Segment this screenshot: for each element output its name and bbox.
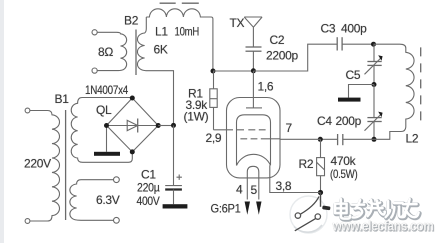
svg-text:7: 7 bbox=[286, 121, 293, 135]
resistor R2 bbox=[320, 139, 322, 157]
svg-text:1N4007x4: 1N4007x4 bbox=[85, 83, 129, 97]
scan edge bbox=[0, 0, 4, 243]
svg-text:(1W): (1W) bbox=[184, 110, 209, 124]
capacitor C2 bbox=[246, 46, 262, 48]
svg-text:220µ: 220µ bbox=[137, 181, 160, 195]
tube anode bar bbox=[246, 107, 262, 109]
node F (key) bbox=[318, 190, 323, 195]
node E (pin7/R2) bbox=[318, 137, 323, 142]
key contact bar bbox=[322, 206, 330, 211]
svg-text:400p: 400p bbox=[341, 22, 367, 36]
junction dots of bridge bbox=[130, 96, 135, 101]
svg-text:(0.5W): (0.5W) bbox=[330, 167, 358, 181]
svg-text:L1: L1 bbox=[155, 25, 168, 39]
terminal (B2 top) bbox=[92, 30, 97, 35]
transformer B1 core bbox=[65, 110, 67, 220]
variable capacitor C5 lower section bbox=[373, 85, 375, 118]
ground (C5) bbox=[338, 98, 361, 102]
svg-text:3,8: 3,8 bbox=[276, 179, 292, 193]
watermark logo circle bbox=[290, 196, 327, 233]
svg-text:5: 5 bbox=[251, 183, 258, 197]
svg-text:QL: QL bbox=[96, 103, 112, 117]
svg-text:2,9: 2,9 bbox=[206, 131, 222, 145]
svg-text:4: 4 bbox=[236, 183, 243, 197]
tube anode arch bbox=[237, 115, 271, 166]
svg-text:2200p: 2200p bbox=[266, 49, 298, 63]
transformer B2 primary winding bbox=[97, 32, 127, 70]
tube grid 1 dashes (pin 2,9) bbox=[237, 129, 266, 131]
wire B+ node down to C1 bbox=[173, 125, 175, 185]
inductor L2 bbox=[374, 44, 415, 139]
svg-text:200p: 200p bbox=[336, 114, 362, 128]
tube cathode lead 3,8 bbox=[270, 165, 321, 192]
capacitor C3 bbox=[336, 37, 338, 50]
svg-text:L2: L2 bbox=[406, 132, 419, 146]
tube heater bbox=[247, 166, 258, 199]
wire node E to tube pin 7 bbox=[280, 138, 320, 140]
transformer B1 primary winding bbox=[30, 111, 60, 222]
svg-text:B2: B2 bbox=[124, 14, 139, 28]
antenna TX bbox=[244, 17, 262, 47]
inductor L1 10mH bbox=[146, 9, 213, 71]
svg-text:1,6: 1,6 bbox=[258, 80, 274, 94]
terminal (B1 primary top) bbox=[25, 108, 30, 113]
node D (tank bottom) bbox=[372, 137, 377, 142]
terminal (B1 primary bottom) bbox=[25, 219, 30, 224]
svg-text:TX: TX bbox=[230, 16, 245, 30]
svg-text:220V: 220V bbox=[24, 157, 51, 171]
tube 6P1 envelope bbox=[227, 98, 281, 178]
wire bridge right to B+ node bbox=[158, 125, 173, 127]
bridge diode axis bbox=[107, 125, 159, 127]
svg-text:400V: 400V bbox=[137, 194, 160, 208]
svg-text:C1: C1 bbox=[141, 168, 156, 182]
svg-text:470k: 470k bbox=[331, 154, 357, 168]
svg-text:www.elecfans.com: www.elecfans.com bbox=[332, 219, 434, 234]
node B bbox=[251, 68, 256, 73]
capacitor C1 bbox=[165, 185, 182, 187]
variable capacitor C5 upper section bbox=[373, 44, 375, 61]
resistor R1 bbox=[213, 71, 215, 89]
svg-text:R2: R2 bbox=[299, 157, 314, 171]
ground (bridge) bbox=[94, 152, 120, 156]
heater arrow pin 4 bbox=[245, 202, 250, 215]
svg-text:8Ω: 8Ω bbox=[98, 45, 113, 59]
tube cathode dome bbox=[237, 154, 271, 165]
telegraph key bbox=[320, 193, 322, 207]
svg-text:G:6P1: G:6P1 bbox=[211, 202, 242, 216]
svg-text:B1: B1 bbox=[55, 92, 70, 106]
svg-text:C3: C3 bbox=[321, 22, 336, 36]
C1 plus sign bbox=[177, 175, 182, 180]
svg-text:10mH: 10mH bbox=[175, 25, 200, 39]
L2 core dashes bbox=[420, 47, 422, 126]
svg-text:6K: 6K bbox=[154, 43, 168, 57]
wire node A to node B bbox=[213, 70, 253, 72]
node C (tank top) bbox=[371, 42, 376, 47]
tube anode lead 1,6 bbox=[252, 71, 254, 108]
tube grid 2 dashes (pin 7) bbox=[240, 138, 270, 140]
svg-text:6.3V: 6.3V bbox=[96, 193, 120, 207]
L1 core dashes bbox=[160, 2, 176, 4]
ground (C1) bbox=[163, 204, 188, 208]
bridge ground wire bbox=[106, 126, 108, 152]
ground wire (C5 rotor) bbox=[349, 85, 375, 98]
node B+ (bridge output) bbox=[171, 123, 176, 128]
wire node B to C3 bbox=[253, 44, 337, 71]
transformer B1 HV secondary bbox=[71, 98, 132, 163]
transformer B2 secondary bbox=[137, 17, 173, 123]
terminal (6.3V bottom) bbox=[114, 217, 120, 223]
svg-text:C2: C2 bbox=[270, 33, 285, 47]
capacitor C4 bbox=[343, 138, 374, 140]
node C5 mid bbox=[372, 82, 377, 87]
transformer B2 core bbox=[135, 30, 137, 76]
svg-text:C4: C4 bbox=[317, 114, 332, 128]
bridge diode bbox=[127, 120, 138, 130]
svg-text:C5: C5 bbox=[346, 68, 361, 82]
heater arrow pin 5 bbox=[256, 202, 261, 215]
transformer B1 6.3V winding bbox=[70, 180, 114, 221]
terminal (6.3V top) bbox=[114, 177, 120, 183]
node A (plate feed) bbox=[211, 69, 216, 74]
wire R1 to grid 2,9 bbox=[214, 129, 234, 131]
bridge rectifier QL diamond bbox=[107, 98, 159, 152]
watermark text 电子发烧友 bbox=[336, 200, 420, 220]
terminal (B2 bottom) bbox=[92, 68, 97, 73]
